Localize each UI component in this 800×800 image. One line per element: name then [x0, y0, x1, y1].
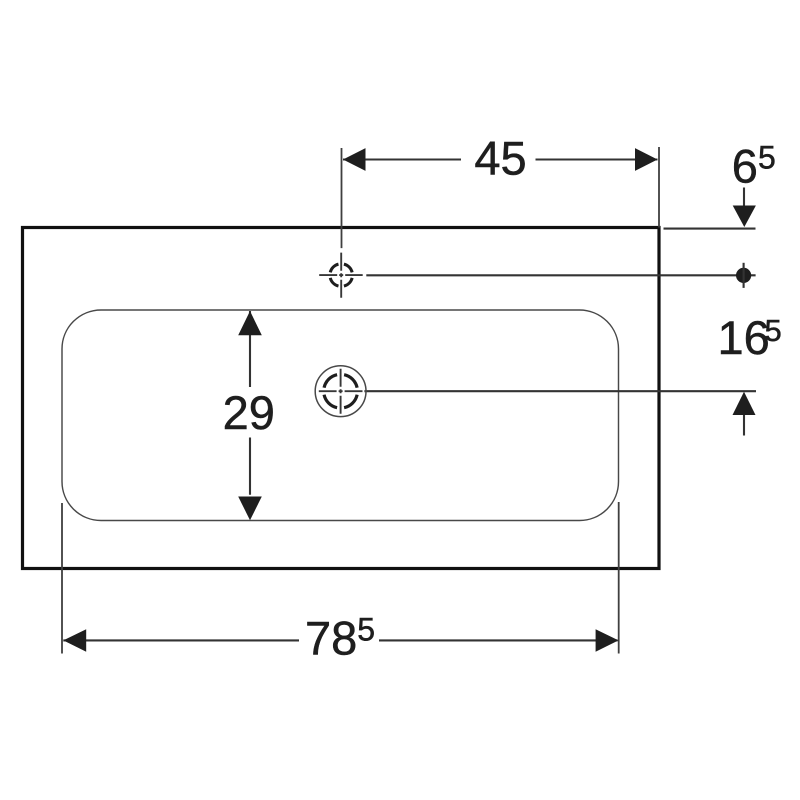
svg-text:29: 29: [223, 386, 275, 439]
svg-text:65: 65: [732, 140, 776, 193]
svg-text:5: 5: [765, 313, 782, 348]
svg-text:16: 16: [718, 311, 770, 364]
svg-text:785: 785: [305, 612, 375, 665]
svg-text:45: 45: [474, 131, 526, 184]
